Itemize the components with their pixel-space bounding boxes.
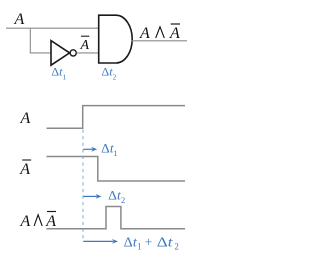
dashed time marker at A transition (82, 130, 84, 242)
svg-text:A: A (19, 161, 30, 178)
svg-text:2: 2 (121, 195, 125, 205)
node A AND Abar output label: overline (171, 23, 180, 25)
waveform Abar (47, 157, 186, 182)
svg-text:A: A (169, 25, 180, 42)
node Abar label (overline) (81, 35, 89, 37)
svg-text:Δt: Δt (108, 189, 121, 203)
arrow dt1+dt2 total delay (83, 240, 113, 242)
svg-text:+: + (145, 235, 152, 250)
svg-text:A: A (45, 213, 56, 230)
wire AND output (132, 40, 188, 42)
svg-text:A: A (139, 25, 150, 42)
svg-text:Δt: Δt (124, 235, 137, 250)
AND gate U2 (99, 15, 133, 63)
inverter bubble (70, 50, 76, 56)
svg-text:Δt: Δt (157, 235, 173, 250)
svg-text:A: A (20, 110, 31, 127)
waveform A AND Abar with glitch pulse (47, 207, 186, 229)
svg-text:A: A (14, 11, 25, 28)
svg-text:1: 1 (113, 148, 117, 158)
arrow dt2 delay (83, 195, 97, 197)
timing label A AND Abar: wedge (34, 215, 42, 226)
wire branch to inverter (30, 28, 50, 53)
arrow dt1 delay (83, 148, 92, 150)
wire inverter output to AND gate (76, 52, 98, 54)
svg-text:1: 1 (137, 242, 142, 252)
svg-text:2: 2 (174, 242, 179, 252)
wire A horizontal (6, 27, 99, 29)
waveform A (47, 106, 186, 129)
svg-text:A: A (80, 38, 90, 53)
inverter U1 NOT gate triangle (51, 41, 70, 66)
timing label Abar (overline) (22, 159, 31, 161)
svg-text:Δt: Δt (101, 142, 114, 156)
svg-text:A: A (20, 213, 31, 230)
node A AND Abar output label: wedge (156, 27, 165, 38)
timing label A AND Abar: overline (47, 211, 56, 213)
